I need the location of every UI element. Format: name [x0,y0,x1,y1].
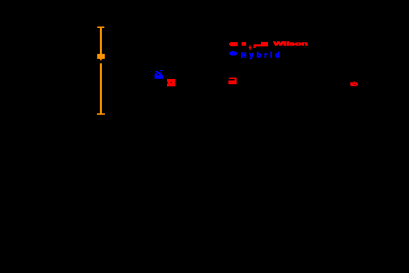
red square marker with error-bar cap (second red point) [228,78,236,85]
legend marker: blue circle (row 2) [229,51,237,56]
orange error bar: vertical line [97,27,105,115]
svg-text:Wilson: Wilson [274,42,309,48]
bottom cap [97,113,105,115]
legend label row 1: "N_f=2 Wilson" (red) [242,42,309,50]
red data square marker [167,79,175,86]
top cap [97,27,104,29]
blue data marker (pixel cluster) [155,70,164,79]
small red marker cluster (right side data point) [350,82,358,87]
legend marker: red square with line (row 1) [229,42,238,46]
orange square marker [97,54,105,59]
